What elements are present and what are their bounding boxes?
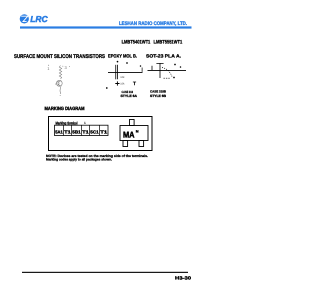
svg-text:M: M [136, 130, 139, 134]
svg-text:1: 1 [84, 121, 86, 125]
package body [120, 126, 148, 141]
svg-text:10k: 10k [120, 83, 125, 86]
node dots [62, 66, 63, 67]
diode pair D2 (case outline, right) [148, 63, 187, 78]
svg-text:LMBT5401WT1: LMBT5401WT1 [122, 39, 151, 45]
marking box [49, 117, 153, 151]
svg-text:SOT-23 PLA A.: SOT-23 PLA A. [146, 54, 181, 59]
pin 2 [139, 141, 144, 147]
transistor body Q1 [56, 80, 62, 86]
diode pair D1 (case outline, middle) [106, 61, 142, 88]
svg-text:STYLE 6B: STYLE 6B [150, 94, 167, 98]
node plus mark [115, 81, 119, 85]
package U1 (SOT-23 top view) [120, 120, 148, 147]
svg-text:CASE 318B: CASE 318B [150, 89, 167, 93]
svg-text:5A1: 5A1 [55, 130, 63, 135]
emitter wire [59, 87, 62, 94]
wire stub [151, 66, 153, 71]
pin 3 tab [130, 120, 135, 126]
transistor Q1 (faint equivalent circuit, left) [47, 65, 70, 96]
wire horizontal [108, 71, 143, 73]
svg-text:Marking Symbol: Marking Symbol [56, 120, 78, 125]
capacitor C1 plates [115, 65, 117, 80]
svg-text:3: 3 [65, 65, 68, 70]
emitter bar [164, 77, 171, 79]
transistor arc (dotted) [162, 68, 172, 77]
collector dot [60, 95, 61, 96]
svg-text:LESHAN RADIO COMPANY, LTD.: LESHAN RADIO COMPANY, LTD. [119, 21, 187, 27]
svg-text:T1: T1 [100, 130, 108, 135]
svg-text:STYLE 6A: STYLE 6A [121, 94, 138, 98]
resistor R1 (vertical zigzag) [59, 66, 61, 80]
junction dots [117, 61, 118, 62]
junction dots [175, 64, 176, 65]
svg-text:MARKING DIAGRAM: MARKING DIAGRAM [45, 106, 85, 111]
svg-text:T1: T1 [82, 130, 89, 135]
logo globe [20, 14, 29, 23]
pin 1 [123, 141, 128, 147]
svg-text:T1: T1 [64, 130, 71, 135]
svg-text:MA: MA [123, 129, 135, 139]
svg-text:1: 1 [47, 66, 50, 71]
footer rule [22, 272, 188, 273]
svg-text:Marking codes apply to all pac: Marking codes apply to all packages show… [46, 158, 112, 162]
wire vertical with bar [156, 63, 163, 78]
svg-text:LRC: LRC [30, 14, 48, 24]
svg-text:10k: 10k [120, 76, 125, 79]
svg-text:EPOXY MOL B.: EPOXY MOL B. [108, 54, 137, 59]
svg-text:H3-30: H3-30 [175, 276, 192, 281]
svg-text:5B1: 5B1 [72, 130, 81, 135]
svg-text:SURFACE MOUNT SILICON TRANSIST: SURFACE MOUNT SILICON TRANSISTORS [14, 54, 105, 60]
svg-text:5C1: 5C1 [90, 130, 99, 135]
svg-text:LMBT5551WT1: LMBT5551WT1 [154, 39, 183, 45]
wire horizontal [148, 69, 187, 71]
header rule [20, 26, 192, 28]
ground T [133, 82, 136, 85]
marking table [55, 125, 109, 135]
marking table cells [55, 130, 108, 135]
